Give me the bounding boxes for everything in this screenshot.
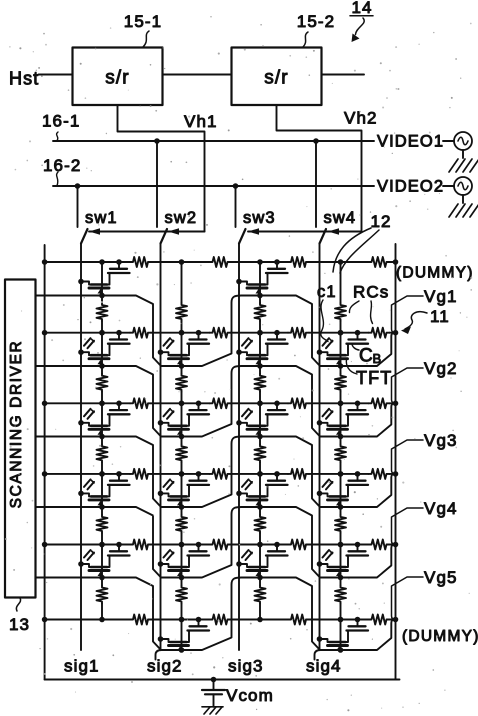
node TFT gate strip2 col4 xyxy=(338,363,344,369)
storage capacitor CB strip3 col3 xyxy=(276,403,278,410)
wire VIDEO1 bus xyxy=(53,140,374,142)
resistor RCs row4 col3 xyxy=(288,469,309,479)
wire sw2 input xyxy=(156,141,158,227)
shift register U2 (15-2) xyxy=(232,48,322,106)
svg-text:Vcom: Vcom xyxy=(226,686,274,705)
storage capacitor CB strip4 col4 xyxy=(357,474,359,481)
resistor chain strip5 col3 xyxy=(255,586,266,604)
wire gate chain strip3 col3 xyxy=(259,403,261,444)
node TFT gate strip5 col2 xyxy=(179,575,185,581)
resistor chain strip5 col4 xyxy=(335,586,346,604)
wire gate row Vg5 y=619.5 xyxy=(45,619,130,621)
wire Vh2 select line with arrows to sw3 sw4 xyxy=(248,231,362,233)
panel left bus xyxy=(44,245,46,680)
svg-text:15-2: 15-2 xyxy=(297,12,335,31)
svg-text:16-1: 16-1 xyxy=(42,112,80,131)
TFT strip5 col4 xyxy=(317,561,323,567)
svg-text:Vg2: Vg2 xyxy=(424,359,458,378)
wire gate chain strip4 col4 xyxy=(340,474,342,515)
wire gate select snake 5 driver stub xyxy=(36,577,103,579)
svg-text:VIDEO1: VIDEO1 xyxy=(377,133,444,151)
wire sw4 input xyxy=(315,141,317,227)
TFT strip6 col2 xyxy=(158,636,164,642)
resistor RCs row5 col3 xyxy=(288,540,309,550)
wire gate chain strip3 col4 xyxy=(340,403,342,444)
resistor chain strip1 col1 xyxy=(97,303,108,321)
liquid crystal element c1 strip5 col4 xyxy=(323,550,330,558)
liquid crystal element c1 strip3 col1 xyxy=(84,409,91,417)
wire gate chain strip5 col3 xyxy=(259,545,261,586)
wire gate chain strip2 col4 xyxy=(340,333,342,374)
liquid crystal element c1 strip5 col1 xyxy=(84,550,91,558)
wire VIDEO1 to source xyxy=(443,140,454,142)
wire gate chain strip1 col3 xyxy=(259,262,261,303)
shift register U1 (15-1) xyxy=(73,48,163,106)
TFT strip3 col2 xyxy=(158,420,164,426)
node row3 right xyxy=(393,401,399,407)
TFT strip2 col4 xyxy=(317,349,323,355)
wire gate chain strip5 col4 xyxy=(340,545,342,586)
wire bottom cell tail col4 xyxy=(315,650,321,660)
svg-text:15-1: 15-1 xyxy=(124,12,162,31)
node TFT gate strip4 col1 xyxy=(99,504,105,510)
svg-text:Vg3: Vg3 xyxy=(424,431,458,450)
wire snake5 col2 to col3 xyxy=(182,578,261,651)
wire gate chain strip5 col2 xyxy=(181,545,183,586)
svg-text:16-2: 16-2 xyxy=(43,156,81,175)
resistor chain strip5 col1 xyxy=(97,586,108,604)
liquid crystal element c1 strip3 col2 xyxy=(164,409,171,417)
resistor RCs row2 col1 xyxy=(130,328,151,338)
wire signal column sig2 xyxy=(160,244,162,651)
node row1 right xyxy=(393,259,399,265)
liquid crystal element c1 strip4 col2 xyxy=(164,479,171,487)
svg-text:11: 11 xyxy=(430,307,450,326)
TFT strip4 col3 xyxy=(236,491,242,497)
wire snake1 col3 to col4 xyxy=(260,296,341,367)
leader 16-1 xyxy=(57,132,58,141)
wire gate chain strip4 col3 xyxy=(259,474,261,515)
resistor RCs row3 col4 xyxy=(369,398,390,408)
TFT strip4 col2 xyxy=(158,491,164,497)
wire snake3 col2 to col3 xyxy=(182,437,261,508)
node TFT gate strip5 col4 xyxy=(338,575,344,581)
wire snake1 col1 to col2 xyxy=(102,296,182,367)
svg-text:Vg4: Vg4 xyxy=(424,499,458,518)
storage capacitor CB strip4 col1 xyxy=(118,474,120,481)
svg-text:sw3: sw3 xyxy=(243,209,276,227)
svg-text:s/r: s/r xyxy=(264,68,288,89)
switch sw2 lever xyxy=(161,229,168,244)
svg-text:sw1: sw1 xyxy=(85,209,118,227)
TFT strip5 col1 xyxy=(78,561,84,567)
liquid crystal element c1 strip4 col4 xyxy=(323,479,330,487)
wire signal column sig4 xyxy=(319,244,321,651)
node row2 left xyxy=(42,330,48,336)
node sw4 feed tap xyxy=(313,138,319,144)
node TFT gate strip5 col1 xyxy=(99,575,105,581)
wire U1 to U2 xyxy=(163,74,232,76)
resistor RCs row3 col1 xyxy=(130,398,151,408)
node row4 right xyxy=(393,471,399,477)
node TFT gate strip4 col3 xyxy=(257,504,263,510)
storage capacitor CB strip6 col2 xyxy=(198,620,200,627)
wire sw1 input xyxy=(77,186,79,227)
resistor RCs row6 col1 xyxy=(130,615,151,625)
wire snake2 col1 to col2 xyxy=(102,366,182,437)
svg-text:s/r: s/r xyxy=(105,68,129,89)
node row3 left xyxy=(42,401,48,407)
storage capacitor CB strip2 col3 xyxy=(276,333,278,340)
TFT strip3 col1 xyxy=(78,420,84,426)
wire gate chain strip5 col1 xyxy=(101,545,103,586)
node row4 left xyxy=(42,471,48,477)
resistor RCs row1 col1 xyxy=(130,257,151,267)
node TFT gate strip3 col3 xyxy=(257,434,263,440)
wire gate chain strip6 col4 xyxy=(340,620,342,651)
TFT strip5 col3 xyxy=(236,561,242,567)
wire gate chain strip3 col1 xyxy=(101,403,103,444)
leader 16-2 xyxy=(57,172,58,186)
TFT strip6 col4 xyxy=(317,636,323,642)
AC source VIDEO1 xyxy=(454,132,472,150)
TFT strip4 col1 xyxy=(78,491,84,497)
node TFT gate strip4 col2 xyxy=(179,504,185,510)
ground of VIDEO1 source xyxy=(449,159,458,172)
node TFT gate strip6 col2 xyxy=(179,647,185,653)
node row1 left xyxy=(42,259,48,265)
wire VIDEO2 to source xyxy=(443,185,454,187)
resistor RCs row6 col4 xyxy=(369,615,390,625)
svg-text:sig4: sig4 xyxy=(306,657,342,676)
storage capacitor CB strip1 col1 xyxy=(118,262,120,269)
wire snake2 col2 to col3 xyxy=(182,366,261,437)
switch sw3 lever xyxy=(239,229,246,244)
node TFT gate strip4 col4 xyxy=(338,504,344,510)
ground of VIDEO2 source xyxy=(449,204,458,217)
liquid crystal element c1 strip2 col3 xyxy=(242,338,249,346)
leader 15-2 xyxy=(303,32,308,47)
liquid crystal element c1 strip3 col4 xyxy=(323,409,330,417)
node row5 right xyxy=(393,542,399,548)
node TFT gate strip1 col3 xyxy=(257,293,263,299)
svg-text:12: 12 xyxy=(370,212,391,231)
storage capacitor CB strip5 col4 xyxy=(357,545,359,552)
node row5 left xyxy=(42,542,48,548)
TFT strip2 col3 xyxy=(236,349,242,355)
resistor RCs row2 col2 xyxy=(210,328,231,338)
wire gate row (DUMMY) y=262 xyxy=(45,261,130,263)
wire snake5 col3 to col4 xyxy=(260,578,341,651)
wire gate row Vg1 y=332.7 xyxy=(45,332,130,334)
wire gate row Vg2 y=403.3 xyxy=(45,402,130,404)
scanning driver box (13) xyxy=(5,280,36,598)
wire gate chain strip2 col1 xyxy=(101,333,103,374)
wire signal column sig3 xyxy=(238,244,240,651)
wire Hst to U1 xyxy=(39,74,73,76)
wire snake5 col1 to col2 xyxy=(102,578,182,651)
svg-text:Hst: Hst xyxy=(9,69,39,89)
TFT strip4 col4 xyxy=(317,491,323,497)
node TFT gate strip2 col3 xyxy=(257,363,263,369)
liquid crystal element c1 strip3 col3 xyxy=(242,409,249,417)
wire gate chain strip1 col4 xyxy=(340,262,342,303)
svg-text:Vh1: Vh1 xyxy=(184,112,218,131)
resistor RCs row1 col2 xyxy=(210,257,231,267)
resistor RCs row5 col4 xyxy=(369,540,390,550)
svg-text:sw2: sw2 xyxy=(165,209,198,227)
liquid crystal element c1 strip4 col3 xyxy=(242,479,249,487)
wire Vh1 control from U1 xyxy=(118,105,205,232)
resistor RCs row3 col3 xyxy=(288,398,309,408)
wire gate chain strip4 col2 xyxy=(181,474,183,515)
wire gate select snake 4 driver stub xyxy=(36,506,103,508)
svg-text:Vg1: Vg1 xyxy=(424,287,458,306)
svg-text:c1: c1 xyxy=(317,283,337,301)
resistor chain strip4 col2 xyxy=(176,515,187,533)
wire gate chain strip1 col2 xyxy=(181,262,183,303)
wire snake3 col1 to col2 xyxy=(102,437,182,508)
wire snake4 col2 to col3 xyxy=(182,507,261,578)
node row2 right xyxy=(393,330,399,336)
storage capacitor CB strip3 col2 xyxy=(198,403,200,410)
resistor chain strip1 col3 xyxy=(255,303,266,321)
resistor chain strip4 col1 xyxy=(97,515,108,533)
svg-text:B: B xyxy=(373,351,383,366)
resistor RCs row6 col3 xyxy=(288,615,309,625)
resistor RCs row1 col3 xyxy=(288,257,309,267)
storage capacitor CB strip3 col1 xyxy=(118,403,120,410)
svg-text:sw4: sw4 xyxy=(324,209,357,227)
svg-text:Vh2: Vh2 xyxy=(344,109,378,128)
wire snake5 col4 to row end xyxy=(341,620,396,651)
wire gate select snake 2 driver stub xyxy=(36,365,103,367)
resistor chain strip1 col2 xyxy=(176,303,187,321)
svg-text:sig3: sig3 xyxy=(228,657,264,676)
wire gate chain strip2 col3 xyxy=(259,333,261,374)
wire snake4 col4 to row end xyxy=(341,545,396,578)
svg-text:SCANNING DRIVER: SCANNING DRIVER xyxy=(8,340,25,509)
storage capacitor CB strip4 col3 xyxy=(276,474,278,481)
liquid crystal element c1 strip5 col2 xyxy=(164,550,171,558)
TFT strip3 col3 xyxy=(236,420,242,426)
node sw2 feed tap xyxy=(154,138,160,144)
svg-text:sig1: sig1 xyxy=(64,657,100,676)
TFT strip3 col4 xyxy=(317,420,323,426)
wire snake1 col4 to row end xyxy=(341,333,396,366)
resistor chain strip3 col2 xyxy=(176,444,187,462)
wire snake3 col3 to col4 xyxy=(260,437,341,508)
leader 15-1 xyxy=(143,31,149,47)
liquid crystal element c1 strip4 col1 xyxy=(84,479,91,487)
panel bottom border xyxy=(45,679,400,681)
wire gate chain strip1 col1 xyxy=(101,262,103,303)
resistor RCs row5 col1 xyxy=(130,540,151,550)
storage capacitor CB strip2 col1 xyxy=(118,333,120,340)
switch sw1 lever xyxy=(81,229,88,244)
TFT strip2 col2 xyxy=(158,349,164,355)
storage capacitor CB strip2 col2 xyxy=(198,333,200,340)
wire gate row Vg4 y=544.5 xyxy=(45,544,130,546)
svg-text:13: 13 xyxy=(9,615,30,634)
wire gate chain strip4 col1 xyxy=(101,474,103,515)
svg-text:RCs: RCs xyxy=(353,283,389,302)
resistor RCs row4 col1 xyxy=(130,469,151,479)
resistor RCs row3 col2 xyxy=(210,398,231,408)
node TFT gate strip3 col1 xyxy=(99,434,105,440)
liquid crystal element c1 strip2 col2 xyxy=(164,338,171,346)
switch sw4 lever xyxy=(320,229,327,244)
wire Vh1 select line with arrows to sw1 sw2 xyxy=(89,231,205,233)
resistor RCs row4 col4 xyxy=(369,469,390,479)
wire gate chain strip3 col2 xyxy=(181,403,183,444)
storage capacitor CB strip4 col2 xyxy=(198,474,200,481)
svg-text:(DUMMY): (DUMMY) xyxy=(402,628,478,645)
wire Vh2 control from U2 xyxy=(277,105,362,232)
node sw1 feed tap xyxy=(75,183,81,189)
resistor chain strip4 col3 xyxy=(255,515,266,533)
wire snake4 col3 to col4 xyxy=(260,507,341,578)
resistor RCs row5 col2 xyxy=(210,540,231,550)
wire signal column sig1 xyxy=(80,244,82,651)
storage capacitor CB strip1 col3 xyxy=(276,262,278,269)
node sw3 feed tap xyxy=(233,183,239,189)
wire U2 output right xyxy=(322,74,365,76)
panel right border (11) xyxy=(395,244,397,680)
resistor chain strip2 col2 xyxy=(176,374,187,392)
liquid crystal element c1 strip5 col3 xyxy=(242,550,249,558)
wire bottom cell tail col2 xyxy=(156,650,162,660)
ground Vcom xyxy=(202,706,223,708)
storage capacitor CB strip2 col4 xyxy=(357,333,359,340)
storage capacitor CB strip3 col4 xyxy=(357,403,359,410)
resistor chain strip5 col2 xyxy=(176,586,187,604)
storage capacitor CB strip5 col2 xyxy=(198,545,200,552)
wire snake2 col4 to row end xyxy=(341,403,396,436)
node TFT gate strip3 col4 xyxy=(338,434,344,440)
svg-text:sig2: sig2 xyxy=(147,657,183,676)
wire sw3 input xyxy=(235,186,237,227)
resistor RCs row2 col4 xyxy=(369,328,390,338)
resistor chain strip3 col3 xyxy=(255,444,266,462)
wire gate select snake 1 driver stub xyxy=(36,295,103,297)
storage capacitor CB strip5 col3 xyxy=(276,545,278,552)
wire VIDEO2 bus xyxy=(53,185,374,187)
svg-text:TFT: TFT xyxy=(356,368,392,388)
node TFT gate strip6 col4 xyxy=(338,647,344,653)
wire snake4 col1 to col2 xyxy=(102,507,182,578)
node TFT gate strip2 col1 xyxy=(99,363,105,369)
wire gate chain strip2 col2 xyxy=(181,333,183,374)
wire gate row Vg3 y=473.9 xyxy=(45,473,130,475)
TFT strip1 col3 xyxy=(236,279,242,285)
node TFT gate strip5 col3 xyxy=(257,575,263,581)
svg-text:(DUMMY): (DUMMY) xyxy=(396,265,474,282)
wire snake3 col4 to row end xyxy=(341,474,396,507)
Vcom electrode capacitor xyxy=(211,677,217,683)
wire gate chain strip6 col2 xyxy=(181,620,183,651)
liquid crystal element c1 strip2 col4 xyxy=(323,338,330,346)
node TFT gate strip1 col1 xyxy=(99,293,105,299)
wire snake1 col2 to col3 xyxy=(182,296,261,367)
node row6 left xyxy=(42,617,48,623)
node TFT gate strip3 col2 xyxy=(179,434,185,440)
resistor chain strip3 col4 xyxy=(335,444,346,462)
resistor chain strip3 col1 xyxy=(97,444,108,462)
resistor chain strip2 col1 xyxy=(97,374,108,392)
AC source VIDEO2 xyxy=(454,177,472,195)
svg-text:Vg5: Vg5 xyxy=(424,568,458,587)
resistor RCs row4 col2 xyxy=(210,469,231,479)
svg-text:14: 14 xyxy=(351,0,372,17)
leader 13 xyxy=(16,598,20,611)
resistor RCs row1 col4 xyxy=(369,257,390,267)
storage capacitor CB strip5 col1 xyxy=(118,545,120,552)
resistor chain strip1 col4 xyxy=(335,303,346,321)
node TFT gate strip2 col2 xyxy=(179,363,185,369)
svg-text:VIDEO2: VIDEO2 xyxy=(377,178,444,196)
resistor RCs row6 col2 xyxy=(210,615,231,625)
wire gate select snake 3 driver stub xyxy=(36,436,103,438)
wire snake2 col3 to col4 xyxy=(260,366,341,437)
node row6 right xyxy=(393,617,399,623)
TFT strip5 col2 xyxy=(158,561,164,567)
storage capacitor CB strip6 col4 xyxy=(357,620,359,627)
resistor chain strip2 col3 xyxy=(255,374,266,392)
TFT strip1 col1 xyxy=(78,279,84,285)
resistor chain strip2 col4 xyxy=(335,374,346,392)
TFT strip2 col1 xyxy=(78,349,84,355)
resistor chain strip4 col4 xyxy=(335,515,346,533)
liquid crystal element c1 strip2 col1 xyxy=(84,338,91,346)
resistor RCs row2 col3 xyxy=(288,328,309,338)
